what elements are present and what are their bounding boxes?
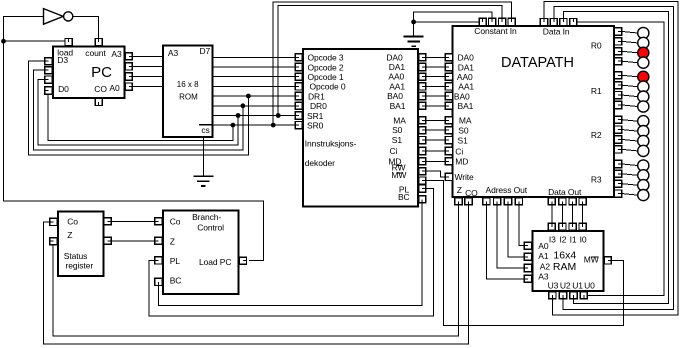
svg-text:AA1: AA1 <box>458 82 474 92</box>
svg-text:cs: cs <box>201 125 209 135</box>
svg-text:Data In: Data In <box>543 27 570 37</box>
svg-text:Co: Co <box>170 216 181 226</box>
svg-text:Innstruksjons-: Innstruksjons- <box>305 139 357 149</box>
svg-text:R1: R1 <box>591 86 602 96</box>
svg-text:RAM: RAM <box>553 261 576 273</box>
svg-text:Opcode 0: Opcode 0 <box>310 82 346 92</box>
svg-text:BC: BC <box>398 192 410 202</box>
svg-text:Ci: Ci <box>455 146 463 156</box>
svg-text:DA1: DA1 <box>389 62 406 72</box>
svg-text:AA0: AA0 <box>388 72 404 82</box>
svg-text:Opcode 3: Opcode 3 <box>308 53 344 63</box>
svg-text:A0: A0 <box>538 241 549 251</box>
svg-text:Z: Z <box>170 236 175 246</box>
svg-text:D3: D3 <box>57 55 68 65</box>
svg-text:A0: A0 <box>109 83 120 93</box>
svg-text:Co: Co <box>67 216 78 226</box>
svg-text:I0: I0 <box>580 235 587 245</box>
svg-text:I3: I3 <box>549 235 556 245</box>
svg-text:Opcode 1: Opcode 1 <box>308 72 344 82</box>
svg-text:SR1: SR1 <box>307 111 324 121</box>
svg-text:DA1: DA1 <box>458 62 475 72</box>
svg-text:Load PC: Load PC <box>199 257 231 267</box>
svg-text:Branch-: Branch- <box>192 212 221 222</box>
svg-text:DR1: DR1 <box>308 91 325 101</box>
svg-text:BA0: BA0 <box>454 91 470 101</box>
svg-text:register: register <box>66 261 94 271</box>
svg-text:Write: Write <box>455 172 475 182</box>
svg-text:I1: I1 <box>570 235 577 245</box>
svg-text:PC: PC <box>91 64 112 81</box>
svg-text:R0: R0 <box>591 41 602 51</box>
svg-text:Z: Z <box>67 230 72 240</box>
svg-text:Opcode 2: Opcode 2 <box>308 62 344 72</box>
svg-text:BA0: BA0 <box>387 91 403 101</box>
svg-text:DATAPATH: DATAPATH <box>501 55 574 71</box>
svg-text:R2: R2 <box>591 130 602 140</box>
svg-text:CO: CO <box>94 84 107 94</box>
svg-text:MA: MA <box>459 116 472 126</box>
svg-text:DR0: DR0 <box>310 101 327 111</box>
svg-text:CO: CO <box>465 188 478 198</box>
svg-text:MD: MD <box>455 157 468 167</box>
svg-text:Adress Out: Adress Out <box>486 185 528 195</box>
svg-text:dekoder: dekoder <box>305 158 335 168</box>
svg-text:Data Out: Data Out <box>548 187 582 197</box>
svg-text:S0: S0 <box>392 125 403 135</box>
svg-text:S0: S0 <box>458 126 469 136</box>
svg-text:Constant In: Constant In <box>474 26 517 36</box>
svg-text:16x4: 16x4 <box>553 249 576 261</box>
svg-text:U2: U2 <box>560 280 571 290</box>
svg-text:D0: D0 <box>58 84 69 94</box>
svg-text:MW: MW <box>391 170 406 180</box>
svg-text:MW: MW <box>584 255 599 265</box>
svg-text:S1: S1 <box>392 135 403 145</box>
svg-text:DA0: DA0 <box>386 52 403 62</box>
svg-text:ROM: ROM <box>179 92 198 101</box>
svg-text:count: count <box>85 48 106 58</box>
svg-text:D7: D7 <box>200 46 211 56</box>
svg-text:SR0: SR0 <box>307 120 324 130</box>
svg-text:Z: Z <box>457 185 462 195</box>
svg-text:BC: BC <box>170 276 182 286</box>
svg-text:BA1: BA1 <box>390 101 406 111</box>
svg-text:A3: A3 <box>168 48 179 58</box>
svg-text:I2: I2 <box>559 235 566 245</box>
svg-text:S1: S1 <box>458 135 469 145</box>
svg-text:AA0: AA0 <box>457 72 473 82</box>
svg-text:Ci: Ci <box>389 146 397 156</box>
svg-text:A3: A3 <box>111 49 122 59</box>
svg-text:A1: A1 <box>538 251 549 261</box>
svg-text:AA1: AA1 <box>389 81 405 91</box>
svg-text:R3: R3 <box>591 174 602 184</box>
svg-text:U0: U0 <box>584 280 595 290</box>
svg-text:16 x 8: 16 x 8 <box>177 80 199 89</box>
svg-text:PL: PL <box>170 256 181 266</box>
svg-text:DA0: DA0 <box>458 53 475 63</box>
svg-text:U3: U3 <box>548 280 559 290</box>
svg-text:A2: A2 <box>540 261 551 271</box>
svg-text:MA: MA <box>393 115 406 125</box>
svg-text:BA1: BA1 <box>458 101 474 111</box>
svg-text:Status: Status <box>64 251 88 261</box>
svg-text:U1: U1 <box>572 280 583 290</box>
svg-text:Control: Control <box>197 223 224 233</box>
